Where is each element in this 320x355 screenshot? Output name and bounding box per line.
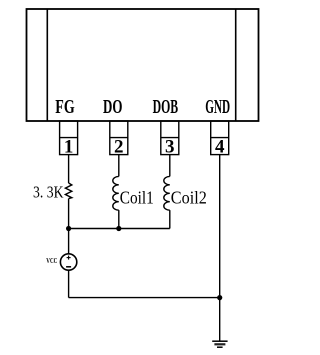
svg-text:VCC: VCC xyxy=(46,257,57,265)
svg-text:DOB: DOB xyxy=(153,96,179,118)
svg-text:Coil2: Coil2 xyxy=(171,187,207,207)
svg-text:FG: FG xyxy=(55,96,75,118)
svg-text:3. 3K: 3. 3K xyxy=(33,183,64,202)
svg-text:Coil1: Coil1 xyxy=(120,187,154,207)
svg-text:3: 3 xyxy=(165,137,175,158)
svg-text:DO: DO xyxy=(103,96,122,118)
svg-text:1: 1 xyxy=(64,137,74,158)
svg-text:4: 4 xyxy=(215,137,225,158)
svg-text:2: 2 xyxy=(114,137,124,158)
svg-text:GND: GND xyxy=(205,96,230,118)
